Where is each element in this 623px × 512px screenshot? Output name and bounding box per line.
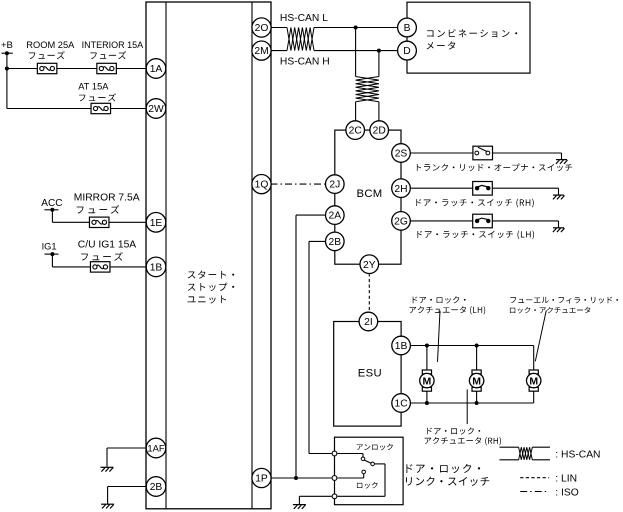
- unit pin 2O: [252, 18, 271, 37]
- svg-text:: HS-CAN: : HS-CAN: [555, 450, 600, 461]
- unit pin 1AF: [146, 438, 166, 458]
- fuse ROOM 25A: [37, 63, 57, 73]
- BCM pin 2J: [326, 175, 345, 194]
- wire trunk switch to ground: [493, 152, 562, 154]
- svg-text:M: M: [423, 375, 432, 387]
- junction HS-CAN L branch: [354, 26, 358, 30]
- junction rail M2: [475, 344, 479, 348]
- legend HS-CAN symbol: [500, 446, 519, 448]
- link switch pin (ground): [332, 494, 337, 499]
- fuse C/U IG1 15A: [90, 262, 110, 272]
- door lock link switch box: [335, 437, 404, 505]
- svg-text:ESU: ESU: [358, 367, 382, 379]
- svg-text:2A: 2A: [328, 211, 341, 222]
- trunk lid opener switch: [473, 146, 493, 160]
- svg-text:2M: 2M: [254, 46, 268, 57]
- svg-text:HS-CAN L: HS-CAN L: [280, 13, 328, 24]
- wire 2S to trunk switch: [410, 152, 473, 154]
- twisted pair HS-CAN vertical: [356, 77, 379, 102]
- svg-text:2Y: 2Y: [363, 260, 376, 271]
- fuse INTERIOR 15A: [97, 63, 117, 73]
- link switch lock contact: [362, 470, 366, 474]
- link switch wire unlock contact: [338, 453, 364, 455]
- svg-text:ROOM 25A: ROOM 25A: [26, 40, 75, 50]
- wire 2G to door latch switch LH: [410, 220, 473, 222]
- unit pin 2B: [146, 477, 166, 497]
- IG1 terminal dot: [50, 252, 54, 256]
- junction HS-CAN H branch: [377, 49, 381, 53]
- svg-text:2G: 2G: [394, 217, 408, 228]
- svg-text:B: B: [404, 23, 411, 34]
- svg-text:INTERIOR 15A: INTERIOR 15A: [82, 40, 144, 50]
- link switch common contact: [371, 462, 375, 466]
- svg-text:2D: 2D: [373, 126, 386, 137]
- svg-text:M: M: [472, 375, 481, 387]
- wire +B vertical feed: [6, 53, 8, 108]
- link switch wire lock contact: [338, 477, 364, 479]
- wire M1 stubs: [426, 346, 428, 371]
- wire latch LH to ground: [492, 220, 558, 222]
- ground G2 (2B): [101, 503, 114, 505]
- door latch switch LH label: [417, 230, 534, 239]
- start-stop unit left connector rail: [165, 2, 167, 509]
- wire twist to pin 2C: [355, 102, 357, 121]
- door latch switch RH label: [416, 199, 533, 208]
- svg-text:2B: 2B: [150, 482, 163, 493]
- BCM pin 2A: [326, 206, 345, 225]
- svg-text:1E: 1E: [150, 218, 163, 229]
- door lock actuator RH label: [427, 427, 480, 434]
- junction return M2: [475, 401, 479, 405]
- ground G1 (1AF): [101, 466, 114, 468]
- unit pin 1P: [252, 468, 271, 487]
- junction return M1: [425, 401, 429, 405]
- wire HS-CAN L to meter pin B: [314, 27, 398, 29]
- svg-text:2C: 2C: [349, 126, 363, 137]
- trunk lid opener switch label: [417, 164, 572, 172]
- wire ACC to MIRROR fuse to pin 1E: [51, 210, 53, 223]
- door latch switch RH (closed): [473, 182, 493, 196]
- svg-text:M: M: [529, 375, 538, 387]
- wire +B to AT fuse to pin 2W: [7, 108, 147, 110]
- leader door lock actuator LH: [438, 311, 441, 362]
- junction +B to 1A branch: [5, 67, 9, 71]
- motor M2 door lock actuator RH: [472, 370, 481, 374]
- leader fuel filler actuator: [535, 310, 546, 361]
- unit pin 2M: [252, 41, 271, 60]
- wire pin 1AF to ground: [107, 447, 147, 449]
- wire +B to fuses to pin 1A: [7, 68, 147, 70]
- junction rail M1: [425, 344, 429, 348]
- leader door lock actuator RH: [466, 389, 468, 424]
- unit pin 2W: [146, 99, 166, 119]
- svg-text:2S: 2S: [395, 149, 408, 160]
- wire twist to pin 2D: [378, 102, 380, 121]
- link switch label ドア・ロック・リンク・スイッチ: [406, 464, 480, 473]
- wire HS-CAN H drop to BCM: [378, 51, 380, 77]
- meter pin B: [398, 18, 417, 37]
- wire 1B motor supply rail: [410, 345, 534, 347]
- link switch pin (lock/1P): [332, 476, 337, 481]
- door latch switch LH (closed): [473, 214, 493, 228]
- link switch lever: [364, 460, 371, 463]
- start-stop unit box (スタート・ストップ・ユニット): [146, 2, 271, 509]
- twisted pair HS-CAN horizontal: [287, 28, 314, 51]
- BCM box: [335, 130, 401, 264]
- svg-text:+B: +B: [1, 40, 13, 51]
- BCM pin 2Y: [360, 255, 379, 274]
- svg-text:2O: 2O: [255, 23, 269, 34]
- wire 1P to link switch: [271, 477, 332, 479]
- door lock actuator LH label: [413, 296, 466, 303]
- svg-text:2H: 2H: [394, 184, 407, 195]
- wire M3 stubs: [533, 346, 535, 371]
- fuse AT 15A: [91, 103, 111, 113]
- BCM pin 2G: [392, 212, 411, 231]
- wire HS-CAN H to meter pin D: [314, 50, 398, 52]
- wire pin 2M HS-CAN H: [271, 50, 288, 52]
- legend LIN line: [520, 477, 549, 479]
- unlock label アンロック: [357, 444, 393, 451]
- lock label ロック: [357, 482, 378, 489]
- BCM pin 2C: [346, 121, 365, 140]
- wire HS-CAN L drop to BCM: [355, 28, 357, 77]
- ground G6 (link switch): [293, 504, 306, 506]
- link switch unlock contact: [361, 457, 365, 461]
- svg-text:2B: 2B: [328, 237, 341, 248]
- combination meter box コンビネーション・メータ: [407, 2, 530, 73]
- svg-text:C/U IG1 15A: C/U IG1 15A: [78, 240, 137, 251]
- ESU pin 1C: [392, 394, 411, 413]
- svg-text:2I: 2I: [364, 317, 373, 328]
- meter pin D: [398, 41, 417, 60]
- svg-text:2W: 2W: [148, 104, 164, 115]
- wire M2 stubs: [476, 346, 478, 371]
- svg-text:1P: 1P: [255, 474, 268, 485]
- BCM pin 2B: [326, 232, 345, 251]
- wire pin 2B to ground: [108, 486, 147, 488]
- svg-text:1C: 1C: [395, 399, 409, 410]
- svg-text:1B: 1B: [150, 263, 163, 274]
- junction 1P/2A wire: [294, 476, 298, 480]
- fuse MIRROR 7.5A: [89, 217, 109, 227]
- ground G3 (trunk switch): [556, 159, 567, 161]
- ESU box: [334, 322, 401, 427]
- ground G4 (latch RH): [553, 194, 564, 196]
- BCM pin 2H: [392, 179, 411, 198]
- svg-text:D: D: [403, 46, 410, 57]
- start-stop unit right connector rail: [251, 2, 253, 509]
- ESU pin 2I: [359, 312, 378, 331]
- link switch pin (unlock): [332, 451, 337, 456]
- svg-text:: ISO: : ISO: [555, 487, 578, 498]
- unit pin 1A: [146, 59, 166, 79]
- svg-text:MIRROR 7.5A: MIRROR 7.5A: [74, 193, 140, 204]
- svg-text:AT 15A: AT 15A: [78, 82, 109, 92]
- svg-text:IG1: IG1: [42, 242, 57, 252]
- BCM pin 2S: [392, 144, 411, 163]
- ISO line 1Q to 2J (dash-dot): [271, 183, 326, 185]
- unit pin 1E: [146, 213, 166, 233]
- fuel filler lid lock actuator label: [510, 297, 618, 304]
- +B terminal dot: [5, 51, 9, 55]
- wire latch RH to ground: [492, 187, 558, 189]
- wire IG1 to C/U IG1 fuse to pin 1B: [51, 254, 53, 267]
- start-stop unit label スタート・ストップ・ユニット: [188, 271, 234, 279]
- wire 2A to link switch: [296, 214, 326, 216]
- wire link switch to ground: [299, 495, 331, 497]
- svg-text:ACC: ACC: [41, 198, 62, 209]
- svg-text:1B: 1B: [395, 341, 408, 352]
- LIN line 2Y to 2I (dashed): [368, 273, 370, 312]
- wire 2H to door latch switch RH: [410, 187, 473, 189]
- link switch common wire to lower pin: [374, 463, 385, 465]
- svg-text:2J: 2J: [329, 180, 340, 191]
- svg-text:1Q: 1Q: [255, 180, 269, 191]
- motor M1 door lock actuator LH: [422, 370, 431, 374]
- motor M3 fuel filler lid lock actuator: [529, 370, 538, 374]
- unit pin 1B: [146, 257, 166, 277]
- ESU pin 1B: [392, 336, 411, 355]
- ACC terminal dot: [50, 208, 54, 212]
- unit pin 1Q: [252, 175, 271, 194]
- svg-text:: LIN: : LIN: [555, 474, 577, 485]
- wire pin 2O HS-CAN L: [271, 27, 288, 29]
- BCM pin 2D: [370, 121, 389, 140]
- wire 1C motor return rail: [410, 402, 534, 404]
- wire 2B to link switch unlock: [309, 240, 326, 242]
- svg-text:1A: 1A: [150, 64, 163, 75]
- legend ISO line: [520, 491, 549, 493]
- svg-text:BCM: BCM: [357, 188, 383, 200]
- ground G5 (latch LH): [553, 227, 564, 229]
- svg-text:HS-CAN H: HS-CAN H: [280, 57, 330, 68]
- svg-text:1AF: 1AF: [147, 443, 164, 454]
